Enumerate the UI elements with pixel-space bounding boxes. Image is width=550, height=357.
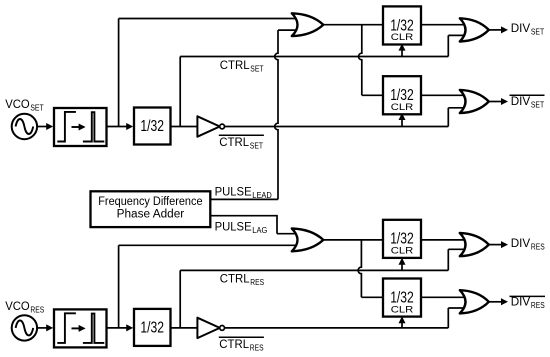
svg-text:CTRL: CTRL bbox=[220, 272, 250, 286]
wire CTRLres riser to OR7 lower input bbox=[448, 249, 467, 270]
OR gate 1 set-lead bbox=[292, 13, 324, 36]
inverter bottom bbox=[197, 318, 224, 338]
wire CTRLset-bar rail from inverter bbox=[225, 126, 449, 128]
svg-text:CLR: CLR bbox=[391, 246, 414, 256]
svg-text:RES: RES bbox=[250, 278, 264, 287]
inverter top bbox=[197, 116, 224, 136]
OR gate 8 DIVres-bar out bbox=[460, 290, 489, 313]
svg-text:1/32: 1/32 bbox=[140, 118, 164, 135]
svg-text:DIV: DIV bbox=[511, 294, 531, 308]
wire CTRLset riser to OR5 lower input bbox=[448, 35, 467, 56]
label PULSElag bbox=[215, 219, 268, 235]
wire PULSElead horizontal bbox=[210, 198, 278, 200]
svg-text:DIV: DIV bbox=[511, 94, 531, 108]
label DIVset bbox=[511, 21, 544, 37]
wire CTRLres riser at x180 bbox=[179, 270, 181, 328]
svg-text:VCO: VCO bbox=[5, 299, 30, 313]
svg-text:DIV: DIV bbox=[511, 21, 531, 35]
wire CTRLres rail bbox=[180, 269, 448, 271]
wire CTRLset rail bbox=[180, 56, 448, 58]
svg-text:RES: RES bbox=[531, 243, 545, 252]
wire CTRLres-bar riser to OR8 lower input bbox=[448, 308, 467, 328]
svg-text:CLR: CLR bbox=[391, 102, 414, 112]
wire DIVset output arrow bbox=[489, 26, 508, 33]
svg-text:1/32: 1/32 bbox=[140, 320, 164, 337]
wire divider1 to inverter bbox=[171, 126, 198, 128]
wire PULSElag horizontal bbox=[210, 215, 277, 234]
wire CTRLset-bar riser to OR6 lower input bbox=[448, 108, 467, 127]
oscillator VCOset source bbox=[12, 114, 37, 139]
wire DIVset-bar output arrow bbox=[489, 98, 508, 105]
wire OR1 output to counter1 bbox=[323, 24, 383, 26]
pulse shaper block bottom bbox=[54, 309, 107, 347]
svg-text:SET: SET bbox=[531, 28, 544, 37]
wire PULSElead into OR1 lower input bbox=[278, 29, 299, 31]
wire counter2 to OR6 top input bbox=[421, 94, 467, 96]
wire branch down to counter4 with hop bbox=[358, 240, 361, 297]
label CTRLres-bar bbox=[219, 337, 264, 353]
wire CLR1 arrow bbox=[399, 44, 406, 57]
svg-text:SET: SET bbox=[250, 64, 263, 73]
svg-text:PULSE: PULSE bbox=[215, 219, 252, 233]
svg-text:PULSE: PULSE bbox=[215, 184, 252, 198]
svg-text:DIV: DIV bbox=[511, 236, 531, 250]
divider 1/32 block top bbox=[134, 108, 171, 145]
svg-text:SET: SET bbox=[250, 142, 263, 151]
label DIVres bbox=[511, 236, 545, 252]
svg-text:RES: RES bbox=[250, 344, 264, 353]
svg-text:VCO: VCO bbox=[5, 97, 30, 111]
block Frequency Difference Phase Adder bbox=[91, 191, 211, 227]
wire DIVres output arrow bbox=[489, 241, 508, 248]
OR gate 6 DIVset-bar out bbox=[460, 90, 489, 113]
wire into counter4 input bbox=[361, 296, 383, 298]
svg-text:CTRL: CTRL bbox=[219, 337, 249, 351]
counter 1/32 CLR box 3 bbox=[383, 220, 421, 258]
counter 1/32 CLR box 4 bbox=[383, 279, 421, 317]
svg-text:RES: RES bbox=[531, 301, 545, 310]
OR gate 2 res-lag bbox=[292, 229, 324, 252]
counter 1/32 CLR box 2 bbox=[383, 76, 421, 114]
wire CLR4 arrow bbox=[399, 316, 406, 328]
wire rail to OR2 lower input bbox=[119, 244, 299, 246]
label CTRLset-bar bbox=[219, 135, 264, 151]
wire top rail to OR1 top input bbox=[119, 18, 299, 20]
divider 1/32 block bottom bbox=[134, 309, 171, 346]
wire pulse shaper2 to divider2 bbox=[107, 324, 134, 331]
wire VCOres source to pulse shaper bbox=[35, 324, 53, 331]
wire counter3 to OR7 top input bbox=[421, 239, 467, 241]
wire CLR3 arrow bbox=[399, 258, 406, 271]
wire VCOset source to pulse shaper bbox=[35, 123, 53, 130]
label VCOset bbox=[5, 97, 43, 113]
label PULSElead bbox=[215, 184, 272, 200]
wire into counter2 input bbox=[362, 94, 383, 96]
wire PULSElag into OR2 top input bbox=[277, 233, 299, 235]
svg-text:LAG: LAG bbox=[252, 226, 267, 235]
wire counter4 to OR8 top input bbox=[421, 296, 467, 298]
svg-text:SET: SET bbox=[531, 100, 544, 109]
wire counter1 to OR5 top input bbox=[421, 24, 467, 26]
svg-text:LEAD: LEAD bbox=[252, 191, 272, 200]
wire divider2 to inverter2 bbox=[171, 327, 198, 329]
wire pulse shaper to divider with branch node bbox=[107, 123, 134, 130]
counter 1/32 CLR box 1 bbox=[383, 6, 421, 44]
label CTRLres bbox=[220, 272, 264, 288]
svg-text:Phase Adder: Phase Adder bbox=[117, 209, 185, 221]
svg-text:CLR: CLR bbox=[391, 32, 414, 42]
wire CTRLres-bar rail from inverter2 bbox=[225, 327, 449, 329]
oscillator VCOres source bbox=[12, 315, 37, 340]
wire branch down to counter2 with hop bbox=[358, 25, 361, 96]
svg-text:RES: RES bbox=[30, 305, 44, 314]
label VCOres bbox=[5, 299, 44, 315]
svg-text:SET: SET bbox=[30, 104, 43, 113]
label CTRLset bbox=[220, 58, 264, 74]
OR gate 7 DIVres out bbox=[460, 233, 489, 256]
label DIVres-bar bbox=[510, 294, 546, 310]
svg-text:CLR: CLR bbox=[391, 304, 414, 314]
pulse shaper block top bbox=[54, 108, 107, 146]
wire PULSElead riser with hops bbox=[275, 30, 278, 199]
svg-text:Frequency Difference: Frequency Difference bbox=[98, 196, 202, 208]
OR gate 5 DIVset out bbox=[460, 18, 489, 41]
svg-text:CTRL: CTRL bbox=[220, 58, 250, 72]
wire CTRLset riser at x180 bbox=[179, 57, 181, 127]
wire DIVres-bar output arrow bbox=[489, 298, 508, 305]
label DIVset-bar bbox=[510, 94, 545, 110]
wire branch riser up from node at x118 bbox=[118, 19, 120, 127]
wire OR2 output to counter3 bbox=[323, 239, 383, 241]
svg-text:CTRL: CTRL bbox=[219, 135, 249, 149]
wire branch riser up from node at x118 bottom bbox=[118, 245, 120, 328]
wire CLR2 arrow bbox=[399, 113, 406, 127]
